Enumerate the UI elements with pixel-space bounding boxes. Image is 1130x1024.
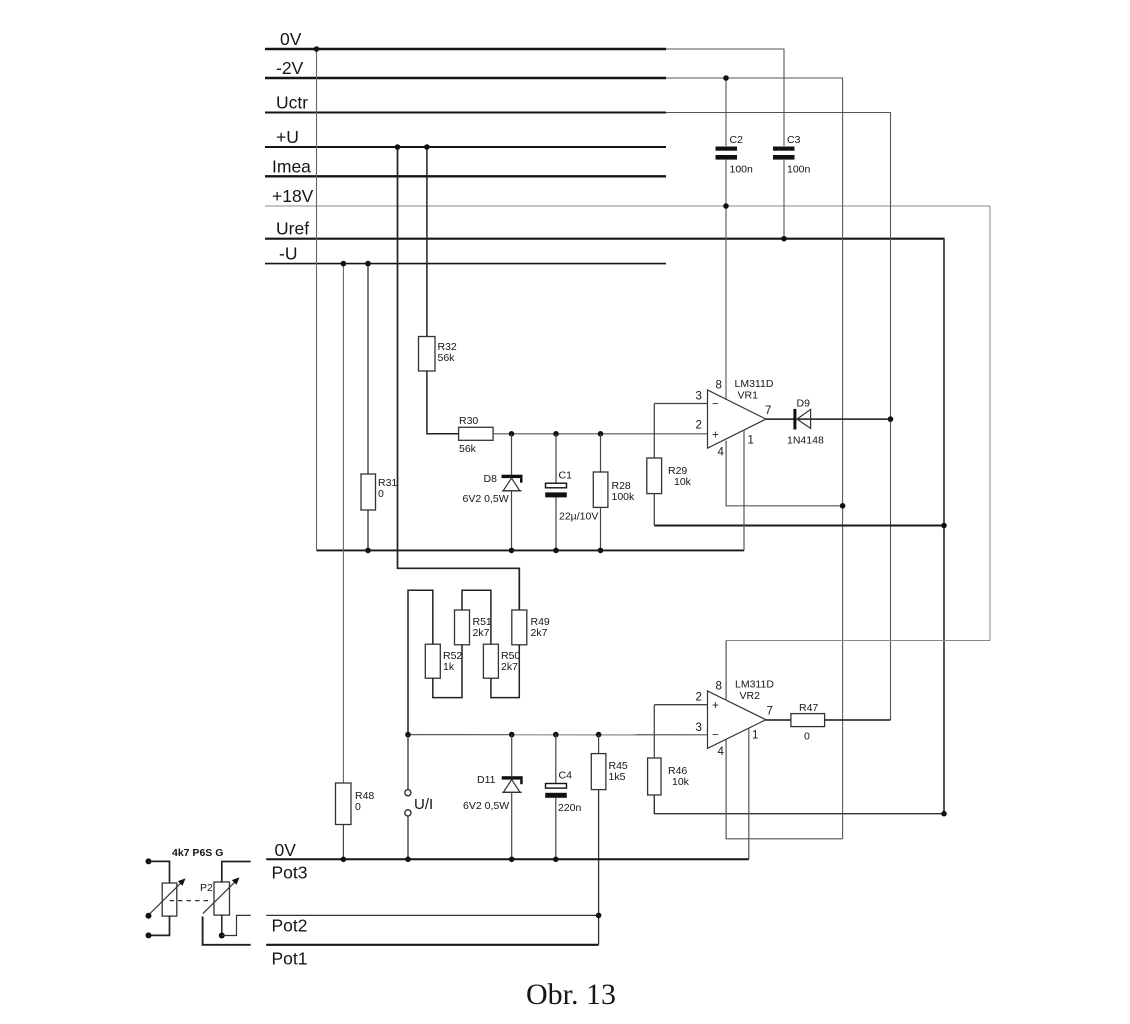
svg-text:C1: C1	[559, 470, 573, 482]
svg-text:4: 4	[718, 746, 725, 758]
op-amp U2 VR2 LM311D	[696, 679, 775, 759]
svg-text:VR1: VR1	[738, 390, 759, 402]
wire pin3 corner down to R29	[653, 404, 655, 459]
potentiometer P2	[200, 862, 251, 945]
svg-text:VR2: VR2	[740, 690, 761, 702]
capacitor C2	[716, 134, 754, 176]
net Uctr bus line	[265, 93, 891, 113]
svg-text:0: 0	[378, 488, 384, 500]
node output / Uctr drop	[888, 416, 894, 422]
svg-text:8: 8	[716, 681, 722, 693]
net 0V bus line	[265, 29, 785, 49]
wire -2V to C2	[725, 78, 727, 146]
wire line A to Uref drop	[654, 525, 944, 527]
svg-text:Pot3: Pot3	[272, 863, 308, 883]
wire 0V right drop to C3 and Uref	[783, 49, 785, 146]
svg-text:1N4148: 1N4148	[787, 435, 824, 447]
svg-text:Obr. 13: Obr. 13	[526, 978, 616, 1011]
svg-text:D8: D8	[484, 473, 498, 485]
svg-text:P2: P2	[200, 882, 213, 894]
node -U tap 2	[365, 261, 371, 267]
switch U/I	[405, 735, 433, 860]
wire R32 bottom to R30	[427, 371, 459, 434]
svg-text:1: 1	[752, 730, 758, 742]
svg-text:4: 4	[718, 447, 725, 459]
svg-text:7: 7	[765, 405, 771, 417]
node lower rail / C4	[553, 732, 559, 738]
node 0V tap	[314, 46, 320, 52]
resistor R49	[512, 610, 550, 645]
net -U bus line	[265, 244, 666, 264]
capacitor C1 electrolytic	[545, 434, 598, 551]
resistor R52	[425, 644, 462, 678]
svg-text:C4: C4	[559, 770, 573, 782]
node line A / Uref	[941, 523, 947, 529]
wire -U drop through R48 to bottom 0V rail	[342, 264, 344, 783]
svg-text:C3: C3	[787, 134, 801, 146]
wire R47 output to Uctr drop	[825, 719, 891, 721]
node rail B / R28	[598, 548, 604, 554]
resistor R32	[419, 337, 457, 372]
svg-text:2: 2	[696, 692, 702, 704]
wire +U drop to R49 top (series chain feed)	[398, 147, 520, 610]
svg-text:6V2 0,5W: 6V2 0,5W	[463, 800, 509, 812]
wire VR2 pin 8 riser to +18V branch	[725, 641, 727, 701]
svg-text:2: 2	[696, 420, 702, 432]
svg-text:Uref: Uref	[276, 219, 309, 239]
node C3-Uref junction	[781, 236, 787, 242]
net +18V bus line	[265, 186, 990, 206]
wire R52 bottom to R51 bottom	[433, 645, 462, 698]
node rail B / C1	[553, 548, 559, 554]
svg-text:C2: C2	[730, 134, 744, 146]
svg-text:4k7 P6S G: 4k7 P6S G	[172, 847, 223, 859]
resistor R45	[591, 735, 628, 790]
svg-text:6V2 0,5W: 6V2 0,5W	[463, 493, 509, 505]
svg-text:LM311D: LM311D	[735, 378, 774, 390]
svg-text:56k: 56k	[438, 352, 456, 364]
svg-text:3: 3	[696, 722, 702, 734]
wire R46 bottom to Uref drop	[654, 795, 944, 814]
svg-text:D9: D9	[797, 398, 811, 410]
wire VR1 pin 1 to rail B	[743, 430, 745, 550]
svg-text:D11: D11	[477, 774, 496, 786]
svg-text:U/I: U/I	[414, 796, 433, 813]
resistor R30	[459, 415, 494, 455]
node bottom rail / D11	[509, 857, 515, 863]
wire -2V drop at right	[842, 78, 844, 839]
wire R30 output to VR1 pin 2	[493, 433, 707, 435]
node lower rail / D11	[509, 732, 515, 738]
svg-text:Pot1: Pot1	[272, 949, 308, 969]
svg-text:2k7: 2k7	[473, 627, 490, 639]
node lower rail / R45	[596, 732, 602, 738]
node bottom rail / C4	[553, 857, 559, 863]
svg-text:Imea: Imea	[272, 156, 311, 176]
wire C3 bottom to Uref	[783, 160, 785, 239]
svg-text:+: +	[712, 430, 719, 442]
net Pot2 line	[266, 915, 598, 935]
wire -U drop to R31	[367, 264, 369, 474]
diode D11 zener	[463, 735, 523, 860]
wire +18V drop at far right	[726, 206, 990, 641]
svg-text:1k5: 1k5	[609, 771, 626, 783]
net -2V bus line	[265, 58, 843, 78]
node pin4 / -2V drop	[840, 503, 846, 509]
svg-text:100n: 100n	[787, 164, 811, 176]
wire VR1 pin 4 to -2V drop	[726, 441, 843, 506]
svg-text:1k: 1k	[443, 661, 455, 673]
wire R29 bottom to line A	[653, 494, 655, 526]
node Pot2 / R45 drop	[596, 913, 602, 919]
svg-text:+18V: +18V	[272, 186, 314, 206]
svg-text:−: −	[712, 399, 719, 411]
node rail B / R31	[365, 548, 371, 554]
svg-text:220n: 220n	[558, 802, 582, 814]
node C1 tap	[553, 431, 559, 437]
node R28 tap	[598, 431, 604, 437]
svg-text:2k7: 2k7	[531, 627, 548, 639]
wire VR2 pin 2 input from R46	[654, 704, 707, 706]
resistor R29	[647, 458, 692, 494]
node C2/+18V junction	[723, 203, 729, 209]
wire pin2 corner down to R46	[653, 705, 655, 758]
svg-text:7: 7	[767, 706, 773, 718]
resistor R48	[336, 783, 375, 825]
svg-text:8: 8	[716, 380, 722, 392]
svg-text:56k: 56k	[459, 443, 477, 455]
svg-text:0: 0	[804, 731, 810, 743]
svg-text:−: −	[712, 730, 719, 742]
wire VR2 pin 1 down to bottom 0V rail	[748, 728, 750, 859]
wire C2 bottom through +18V to VR1 pin 8	[725, 160, 727, 400]
svg-text:3: 3	[696, 391, 702, 403]
svg-text:0: 0	[355, 801, 361, 813]
diode D8 zener	[463, 434, 523, 551]
capacitor C4 electrolytic	[545, 735, 581, 860]
diode D9 1N4148	[787, 398, 824, 447]
node lower rail / R52 drop	[405, 732, 411, 738]
resistor R28	[593, 434, 635, 551]
resistor R47	[791, 702, 825, 743]
svg-text:R47: R47	[799, 702, 818, 714]
svg-text:10k: 10k	[672, 776, 690, 788]
wire Uref drop at right	[943, 239, 945, 814]
wire VR2 output to R47	[766, 719, 791, 721]
node C2 top on -2V	[723, 75, 729, 81]
potentiometer P1 (4k7 P6S G)	[146, 847, 224, 938]
node R46 line / Uref drop	[941, 811, 947, 817]
resistor R31	[361, 474, 397, 510]
svg-text:0V: 0V	[280, 29, 302, 49]
net 0V bottom rail (Pot3)	[266, 840, 749, 883]
svg-text:10k: 10k	[674, 476, 692, 488]
wire VR1 pin 3 input	[654, 403, 707, 405]
wire R50 bottom to R49 bottom	[491, 645, 519, 698]
wire R52 top to lower rail drop	[408, 590, 433, 734]
wire VR1 output to Uctr drop	[766, 418, 891, 420]
resistor R51	[455, 610, 492, 645]
resistor R46	[648, 758, 690, 795]
svg-text:Uctr: Uctr	[276, 93, 308, 113]
node +U tap 2	[424, 144, 430, 150]
node bottom rail / switch	[405, 857, 411, 863]
wire Uctr drop at right	[890, 113, 892, 721]
wire rail B (0V analog rail)	[317, 549, 745, 551]
capacitor C3	[773, 134, 811, 176]
resistor R50	[483, 644, 520, 678]
node bottom rail / R48	[341, 857, 347, 863]
op-amp U1 VR1 LM311D	[696, 378, 774, 459]
wire gang dashed link	[170, 900, 213, 902]
net +U bus line	[265, 127, 666, 147]
svg-text:Pot2: Pot2	[272, 916, 308, 936]
net Pot1 line	[266, 945, 598, 969]
svg-text:LM311D: LM311D	[735, 679, 774, 691]
svg-text:-U: -U	[279, 244, 297, 264]
net Imea bus line	[265, 156, 666, 176]
node -U tap 1	[341, 261, 347, 267]
wire R51 top to R50 top	[462, 590, 491, 644]
wire 0V left drop	[316, 49, 318, 550]
node +U tap 1	[395, 144, 401, 150]
svg-text:1: 1	[748, 435, 754, 447]
svg-text:2k7: 2k7	[501, 661, 518, 673]
node D8 tap	[509, 431, 515, 437]
svg-text:100n: 100n	[730, 164, 754, 176]
svg-text:100k: 100k	[612, 491, 636, 503]
svg-text:22µ/10V: 22µ/10V	[559, 511, 598, 523]
wire VR2 pin 4 to -2V drop	[726, 739, 843, 839]
svg-text:R30: R30	[459, 415, 478, 427]
node rail B / D8	[509, 548, 515, 554]
svg-text:0V: 0V	[275, 840, 297, 860]
wire +U drop to R32	[426, 147, 428, 337]
svg-text:-2V: -2V	[276, 58, 304, 78]
wire lower rail to VR2 pin 3	[408, 734, 708, 736]
svg-text:+U: +U	[276, 127, 299, 147]
svg-text:+: +	[712, 700, 719, 712]
net Uref bus line	[265, 219, 945, 239]
wire R45 bottom down to Pot1	[598, 790, 600, 945]
